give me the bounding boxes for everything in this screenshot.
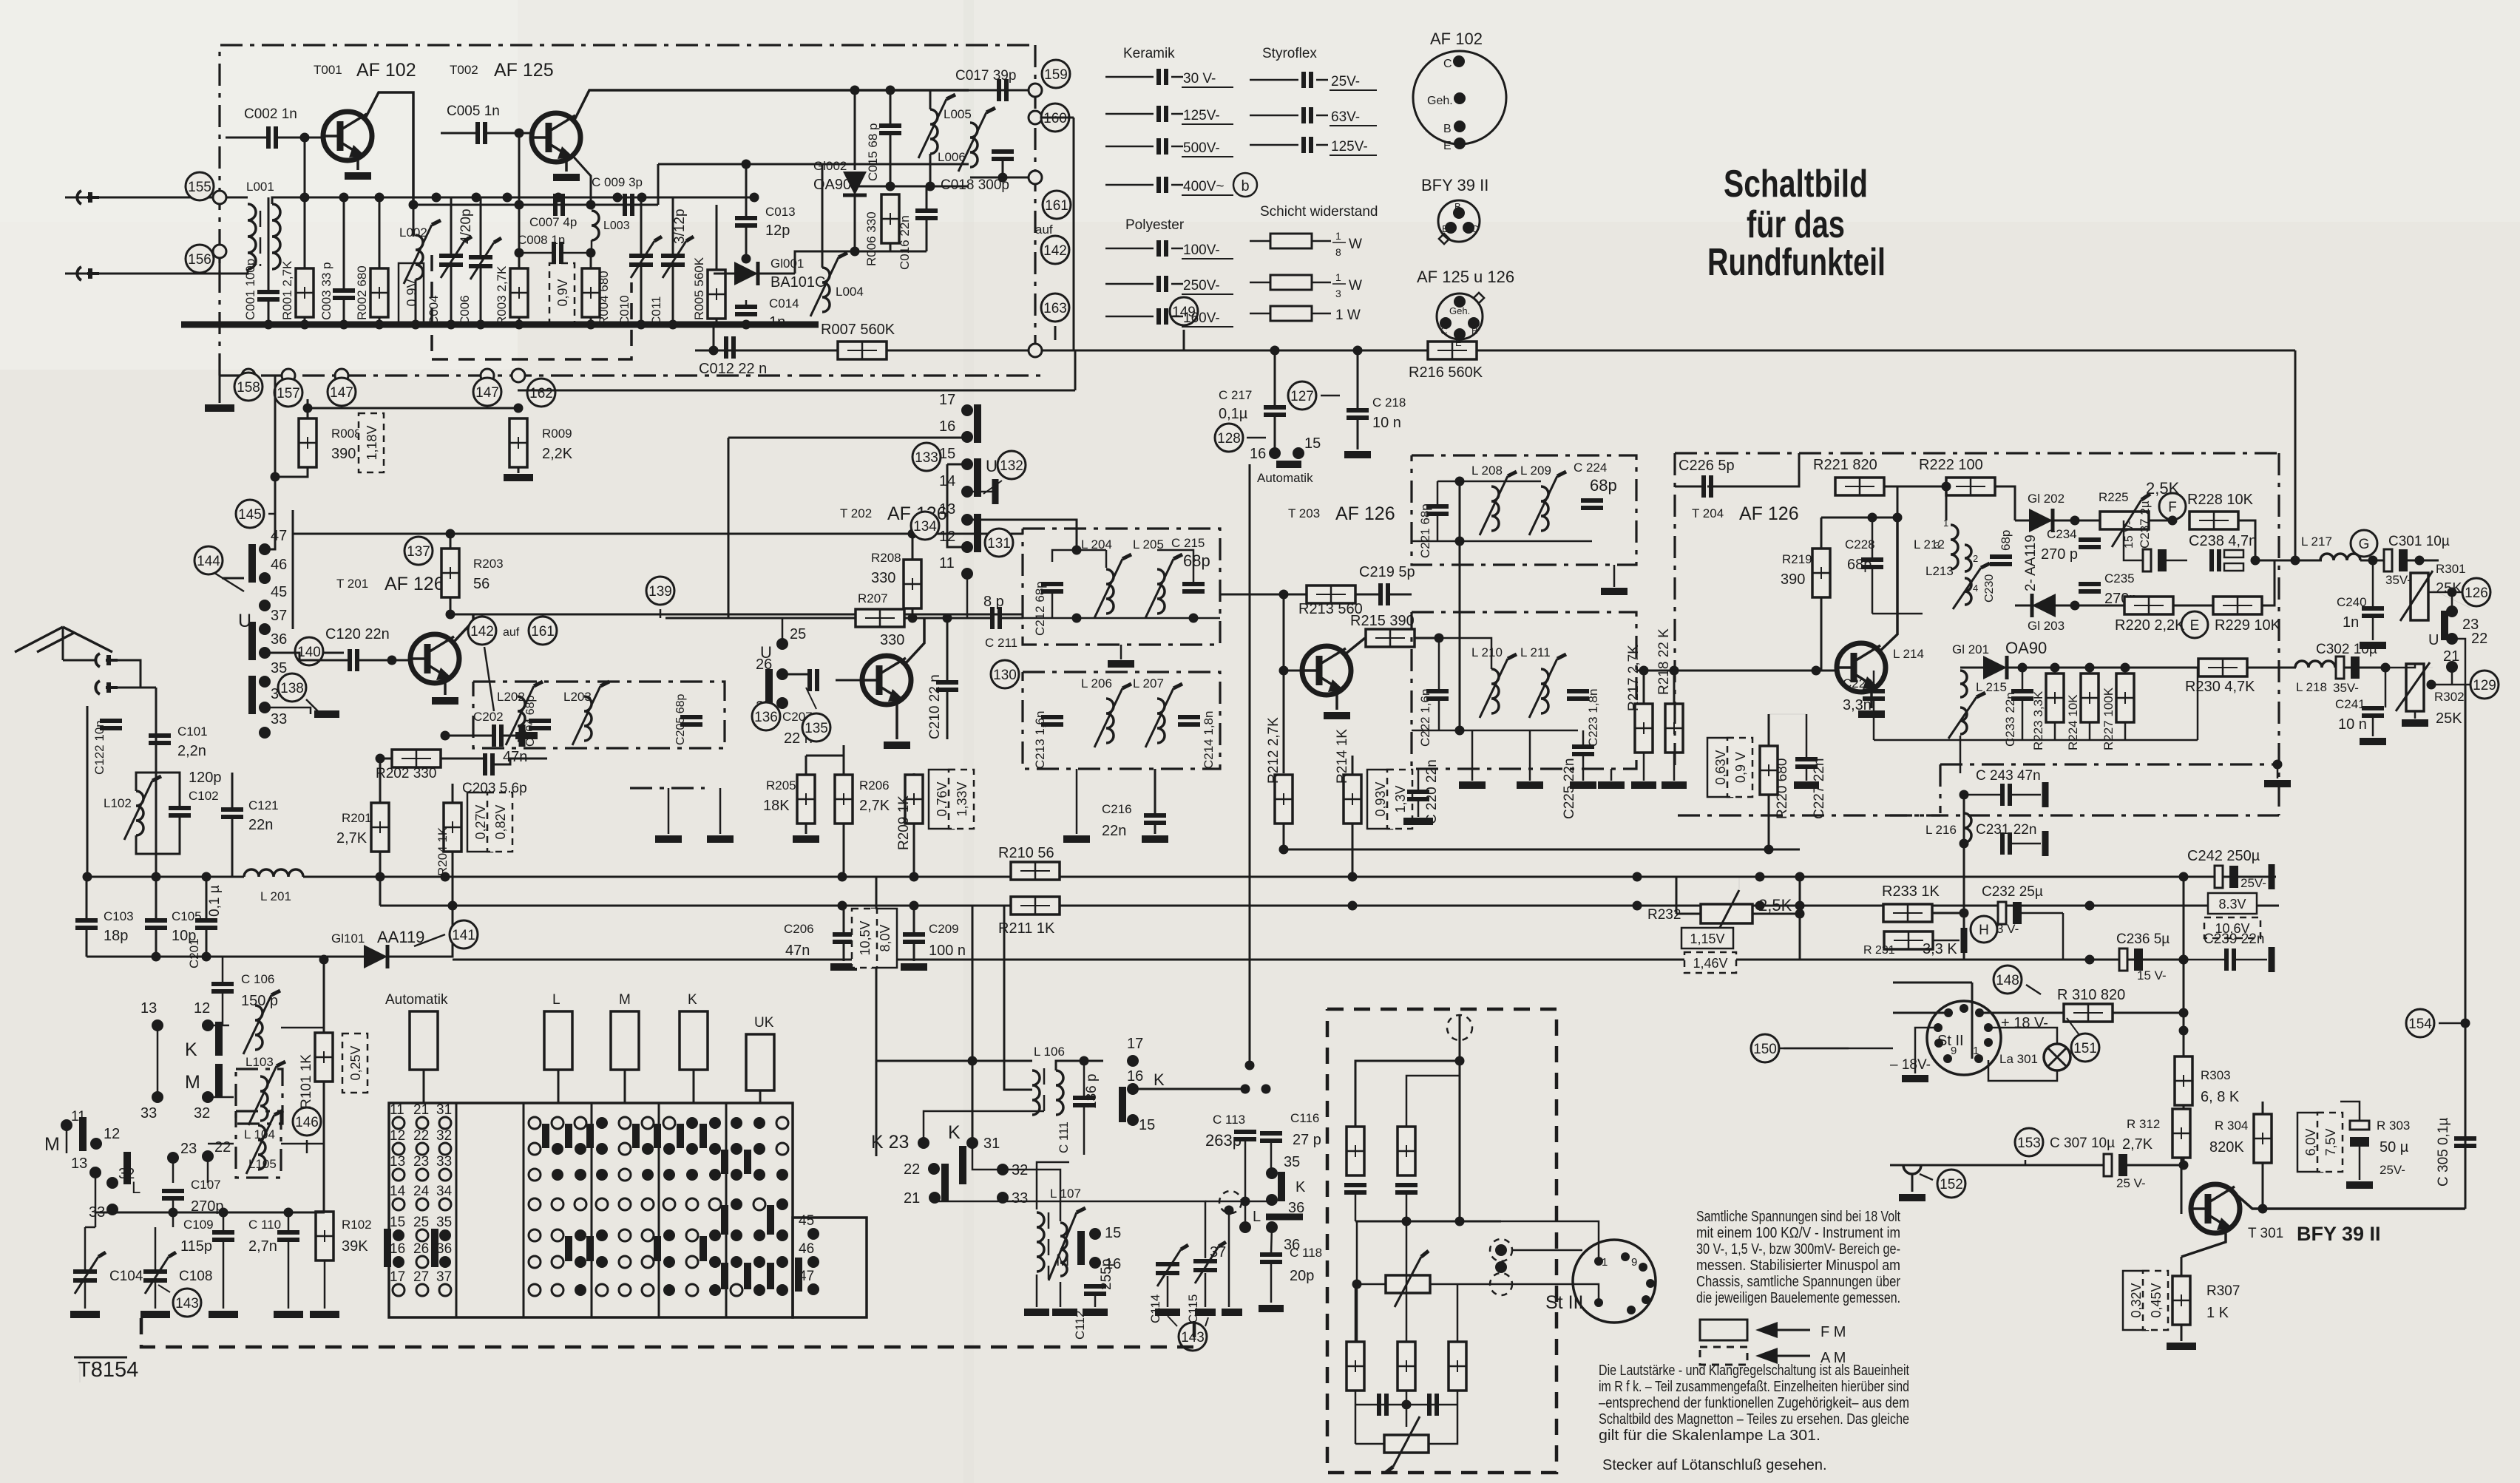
bus1186 junction 2953 [2179, 872, 2189, 882]
R001 bottom [304, 317, 306, 325]
FM tuner unit border right edge [1034, 45, 1036, 353]
svg-text:B: B [1454, 201, 1461, 212]
svg-text:129: 129 [2473, 678, 2496, 693]
R224 btm [2089, 722, 2091, 740]
K wires 21 [935, 1198, 995, 1201]
svg-text:U: U [2428, 632, 2439, 648]
node ref 162 [527, 379, 555, 407]
svg-text:0,63V: 0,63V [1713, 750, 1728, 784]
plug2 wire down [118, 687, 156, 689]
coil L103 [255, 1005, 262, 1050]
matrix contact 36 filled [439, 1256, 451, 1268]
svg-text:100 n: 100 n [929, 943, 966, 959]
pin11 drop [966, 574, 969, 618]
bus1186 junction 211 [152, 872, 161, 882]
matrix grid dot [709, 1229, 721, 1241]
capacitor C110 2,7n [277, 1232, 299, 1240]
svg-text:17: 17 [390, 1269, 405, 1285]
node ref 135 [802, 713, 830, 741]
ground C225 [1570, 781, 1596, 789]
svg-text:1: 1 [1943, 517, 1948, 529]
svg-text:R213 560: R213 560 [1298, 601, 1363, 617]
svg-text:C001 100p: C001 100p [243, 259, 257, 320]
FM tuner unit border (top box) [220, 45, 1035, 376]
stIII wires topb [1406, 1076, 1460, 1127]
legend keramik underline 198 [1182, 156, 1233, 157]
svg-text:L 207: L 207 [1133, 676, 1164, 690]
resistor R220 680 [1760, 746, 1778, 795]
wire L004 row [795, 251, 855, 274]
L104 wires [208, 1096, 234, 1099]
svg-text:C007 4p: C007 4p [529, 215, 577, 229]
stub verticals [668, 788, 670, 834]
R231 gnd bar [1961, 928, 1968, 953]
coil L107 secondary [1060, 1223, 1067, 1276]
resistor R307 1K [2172, 1276, 2190, 1325]
svg-text:820K: 820K [2209, 1139, 2244, 1155]
matrix contact 33 [439, 1169, 451, 1181]
wire vert 1974 [1459, 481, 1461, 730]
matrix contact 12 [393, 1143, 404, 1155]
voltage box 1.18V [359, 413, 384, 472]
matrix grid dot [731, 1169, 742, 1181]
junction 154 [2461, 1019, 2470, 1028]
contact 13a [152, 1019, 163, 1031]
voltage box 0.9V at R002 [399, 263, 424, 322]
svg-text:15: 15 [390, 1215, 405, 1230]
2179 stem [1610, 769, 1613, 781]
coil L004 variable [822, 268, 830, 312]
R233 vert [1963, 877, 1965, 960]
capacitor C018 300p [992, 152, 1014, 159]
resistor R228 10K [2189, 512, 2238, 529]
det bottom wire [2015, 605, 2075, 607]
svg-text:16: 16 [939, 418, 955, 435]
StIII pin [1621, 1252, 1630, 1261]
svg-text:Die Lautstärke - und Klangrege: Die Lautstärke - und Klangregelschaltung… [1599, 1362, 1909, 1379]
stIII resistor c [1347, 1342, 1364, 1391]
T201 emitter down [444, 679, 447, 695]
voltage box 0,93V [1367, 770, 1392, 829]
matrix grid circle [552, 1256, 563, 1268]
wire 36 to C120 [265, 652, 344, 654]
capacitor C223 1,8n [1567, 691, 1589, 699]
svg-text:C205 68p: C205 68p [674, 694, 687, 745]
boxD bottom [1438, 699, 1440, 730]
capacitor C113 263p [1234, 1132, 1256, 1139]
svg-text:63V-: 63V- [1331, 109, 1360, 125]
svg-text:Gl 201: Gl 201 [1952, 642, 1989, 656]
junction boxD btm [1455, 726, 1465, 736]
svg-text:0,27V: 0,27V [473, 804, 488, 839]
C108 top [155, 1227, 157, 1272]
transistor T001 AF 102 [323, 112, 372, 160]
svg-text:C005 1n: C005 1n [447, 103, 500, 119]
capacitor C114 trimmer [1156, 1245, 1188, 1286]
pin13 wire right [967, 520, 1077, 550]
junction R302 wiper [2427, 680, 2436, 690]
capacitor C239 22n [2226, 948, 2234, 971]
junction C012 left [709, 346, 719, 356]
C242 gnd bar [2269, 864, 2275, 889]
coil L210 [1491, 669, 1499, 713]
switch button UK [746, 1034, 774, 1090]
capacitor C303 50u elco [2350, 1121, 2369, 1147]
matrix grid circle [619, 1169, 631, 1181]
R212 btm [1283, 824, 1285, 849]
svg-text:37: 37 [436, 1269, 452, 1285]
line 372 to 47 [265, 510, 275, 549]
legend polyester underline 384 [1182, 293, 1233, 295]
thick ground bus FM box [181, 322, 819, 328]
legend keramik underline 154 [1182, 123, 1233, 125]
pin 15 automatik [1293, 447, 1304, 459]
ground C240 [2360, 642, 2386, 649]
junction L106 out [1080, 1056, 1089, 1066]
svg-text:L 201: L 201 [260, 889, 291, 903]
svg-text:12p: 12p [765, 223, 790, 239]
node 160 circle [1029, 111, 1042, 124]
ground row b [707, 835, 734, 843]
BFY39 pin B [1453, 207, 1465, 219]
switch button K [680, 1011, 708, 1070]
junction 2953 1298 [2179, 955, 2189, 965]
antenna left arm [15, 627, 63, 652]
voltage box 1,33V [949, 770, 974, 829]
node ref 156 [186, 245, 214, 273]
C003 bottom [343, 299, 345, 325]
transistor T002 AF 125 [532, 113, 580, 162]
matrix grid circle [663, 1117, 675, 1129]
wire vert 1736 [1283, 594, 1285, 773]
svg-text:AF 126: AF 126 [1739, 503, 1799, 524]
junction C243 [1960, 790, 1969, 800]
matrix grid dot [596, 1169, 608, 1181]
wire 1724 to C217 [1274, 370, 1276, 405]
ground T203 emitter [1324, 712, 1350, 719]
T204 base wire [1797, 670, 1837, 672]
R219 btm [1820, 597, 1823, 671]
svg-text:auf: auf [1035, 223, 1053, 237]
StIII pin [1639, 1263, 1647, 1272]
svg-text:1: 1 [1602, 1256, 1608, 1269]
T002 emitter stem [565, 158, 568, 172]
bar 22-21 [941, 1164, 949, 1202]
svg-text:C202: C202 [473, 710, 504, 724]
T201 collector up [453, 614, 473, 642]
vertical R003 [518, 257, 521, 268]
svg-text:–entsprechend der funktionel: –entsprechend der funktionellen Zugehöri… [1599, 1395, 1909, 1411]
legend keramik cap 154 [1159, 106, 1166, 122]
129 link [2452, 684, 2470, 686]
stub verticals2 [719, 788, 722, 834]
matrix contact 32 [439, 1143, 451, 1155]
node ref 161 [1043, 191, 1071, 219]
capacitor C108 variable [143, 1252, 176, 1294]
coil L217 [2320, 554, 2360, 560]
svg-text:2- AA119: 2- AA119 [2023, 535, 2039, 591]
C115 top [995, 1201, 1205, 1258]
svg-text:R 231: R 231 [1863, 944, 1895, 957]
boxC mid wire [1412, 540, 1592, 543]
legend keramik underline 104 [1182, 86, 1233, 88]
svg-text:C121: C121 [248, 798, 279, 812]
L105 out wire [281, 1143, 324, 1145]
contact22 wire [2452, 639, 2465, 685]
E wire [2173, 605, 2213, 607]
junction 1712 1473 [1261, 1085, 1271, 1094]
ground mic [1899, 1194, 1925, 1201]
C121 btm [231, 818, 234, 877]
svg-text:Geh.: Geh. [1449, 305, 1470, 316]
svg-text:22: 22 [904, 1161, 920, 1178]
junction R222 left [1942, 482, 1951, 492]
boxA inner wire [1105, 550, 1108, 568]
svg-text:R 310 820: R 310 820 [2057, 987, 2125, 1003]
C237 wires [2124, 520, 2143, 560]
stIII mid j [1352, 1280, 1362, 1289]
wire pins 1370 [1893, 1012, 1948, 1014]
matrix grid dot [731, 1198, 742, 1210]
FM detector box right edge [2277, 453, 2280, 815]
junction 1690 1441 [1245, 1061, 1255, 1070]
svg-text:Gl001: Gl001 [770, 257, 804, 271]
svg-text:151: 151 [2073, 1041, 2097, 1056]
svg-text:134: 134 [913, 519, 937, 535]
R227 btm [2124, 722, 2127, 740]
matrix grid dot [596, 1117, 608, 1129]
143b links [1168, 1316, 1177, 1326]
wire C218 drop [1357, 399, 1359, 410]
svg-text:36: 36 [271, 631, 287, 648]
R215 out [1415, 637, 1439, 639]
resistor R229 10K [2213, 597, 2262, 614]
svg-text:Chassis, samtliche Spannungen: Chassis, samtliche Spannungen über [1696, 1274, 1900, 1290]
capacitor C101 2,2n [149, 736, 171, 743]
resistor R206 2,7K [835, 775, 853, 824]
T204 collector [1880, 517, 1897, 651]
12a-13a wire [157, 1025, 159, 1097]
svg-text:T 201: T 201 [336, 577, 368, 591]
C012 link [713, 325, 715, 350]
bus1186 junction 118 [83, 872, 92, 882]
L005 btm [929, 154, 932, 186]
svg-text:2,2n: 2,2n [177, 743, 206, 759]
C302 out wire [2385, 668, 2387, 707]
FM detector box top edge [1675, 452, 2279, 454]
C201 btm [206, 929, 208, 957]
matrix grid circle [753, 1198, 765, 1210]
resistor R205 18K [797, 775, 815, 824]
plug AM antenna upper [95, 654, 118, 667]
capacitor C122 10n [100, 721, 122, 728]
voltage box 1,15V [1681, 928, 1733, 948]
wire C002 to T001 base [226, 137, 268, 139]
ground bl3 [209, 1311, 238, 1318]
junction boxC mid [1455, 537, 1465, 546]
resistor R230 4,7K [2198, 659, 2247, 676]
svg-text:F M: F M [1820, 1324, 1846, 1340]
stIII bus j2 [1455, 1217, 1465, 1226]
svg-text:OA90: OA90 [813, 177, 851, 193]
resistor R219 390 [1812, 549, 1830, 597]
StII pin [1934, 1023, 1942, 1032]
matrix contact 27 [416, 1284, 428, 1296]
legend styroflex lead 156 [1250, 115, 1298, 117]
coil L006 variable [970, 123, 978, 167]
coil L206 [1106, 699, 1114, 743]
svg-text:C204 68p: C204 68p [524, 696, 537, 747]
node ref 143b [1179, 1323, 1207, 1351]
svg-text:45: 45 [271, 584, 287, 600]
node ref 143a [173, 1289, 201, 1317]
contact K31 [966, 1137, 978, 1149]
svg-text:R229 10K: R229 10K [2215, 617, 2281, 634]
dash-dot stub C243 [1939, 764, 1941, 813]
C302 wire right [2385, 667, 2433, 668]
svg-text:0,76V: 0,76V [935, 781, 949, 816]
legend resistor lead2 326 [1312, 240, 1331, 242]
node ref 142 [1041, 236, 1069, 264]
ground R205 [793, 835, 819, 843]
svg-text:133: 133 [915, 450, 938, 466]
svg-text:K: K [948, 1122, 961, 1143]
matrixbox resistor a [1347, 1127, 1364, 1175]
bus1186 junction 2434 [1795, 872, 1805, 882]
C243 gnd bar [2042, 782, 2049, 807]
matrix grid circle [575, 1117, 586, 1129]
svg-text:150: 150 [1753, 1042, 1777, 1057]
wire 836 to C211 [904, 617, 992, 620]
bus1225 junction 612 [448, 901, 458, 911]
svg-text:R219: R219 [1782, 552, 1812, 566]
R310 left [1979, 1012, 2063, 1014]
svg-text:C: C [1443, 58, 1452, 70]
matrix grid dot [575, 1284, 586, 1296]
matrix sub dot 45 [807, 1228, 819, 1240]
143b links2 [1205, 1317, 1208, 1326]
contact 35b [1266, 1167, 1278, 1179]
C243 out [2011, 794, 2041, 796]
coil L218 [2295, 661, 2335, 668]
node ref 157 [274, 379, 302, 407]
svg-text:C 224: C 224 [1574, 461, 1607, 475]
dd ground stem [2277, 764, 2279, 778]
svg-text:C240: C240 [2337, 595, 2367, 609]
capacitor C236 5u [2119, 948, 2143, 971]
junction C120-T201 [387, 656, 397, 665]
svg-text:21: 21 [2443, 648, 2459, 665]
C109 btm [223, 1241, 225, 1309]
matrix grid dot [731, 1117, 742, 1129]
node ref 128 [1215, 424, 1243, 452]
junction 1836 474 [1353, 346, 1363, 356]
svg-text:L202: L202 [497, 690, 525, 704]
C121 top [231, 773, 234, 809]
svg-text:0,25V: 0,25V [348, 1045, 363, 1080]
node ref 159 [1042, 60, 1070, 88]
matrix bar [586, 1236, 594, 1261]
matrix grid dot [642, 1143, 654, 1155]
151 pointer [2067, 1018, 2079, 1035]
svg-text:L 215: L 215 [1976, 680, 2007, 694]
ground T001 emitter [345, 172, 371, 180]
svg-text:0,32V: 0,32V [2129, 1283, 2144, 1317]
switch pin 17 col T202 [961, 404, 973, 416]
matrix grid circle [731, 1284, 742, 1296]
coil L001 secondary [272, 204, 280, 269]
dash-dot stub C243 top [1940, 763, 2277, 765]
legend keramik lead 250 [1105, 184, 1154, 186]
legend styroflex underline 108 [1330, 89, 1377, 91]
coil L005 variable [930, 109, 938, 154]
legend keramik lead 198 [1105, 146, 1154, 148]
matrix grid circle [642, 1256, 654, 1268]
22a wire [207, 1156, 209, 1183]
C110 top [288, 1212, 290, 1232]
junction 1294 a [152, 952, 161, 962]
svg-text:22n: 22n [248, 817, 273, 833]
ground dd [2264, 780, 2291, 787]
junction boxA 1456 [1072, 614, 1082, 623]
junction C302 out [2381, 663, 2391, 673]
junction R220 btm [1764, 845, 1774, 855]
ground 138 [314, 710, 339, 718]
junction boxD in [1435, 634, 1444, 643]
svg-text:K: K [1295, 1179, 1306, 1195]
capacitor C212 68p [1041, 584, 1063, 591]
R230 right [2247, 667, 2296, 669]
svg-text:148: 148 [1996, 973, 2019, 988]
C219 right [1389, 594, 1412, 596]
switch pin 15 col T202 [961, 458, 973, 470]
junction R208 top [908, 529, 918, 539]
C233 wires [2022, 668, 2024, 690]
matrix contact 22 [416, 1143, 428, 1155]
R217 btm [1643, 753, 1645, 781]
matrix grid dot [709, 1284, 721, 1296]
matrix grid circle [642, 1284, 654, 1296]
svg-text:139: 139 [648, 584, 672, 600]
wire 37 stub [1244, 1201, 1247, 1221]
T204 emitter link [1769, 713, 1806, 715]
junction 1640 b [284, 1208, 294, 1218]
L215 bottom [1960, 736, 1962, 773]
bus 1149 segment [1284, 849, 1800, 851]
StII pin [1943, 1054, 1952, 1063]
svg-text:– 18V-: – 18V- [1890, 1057, 1931, 1073]
T001 collector wire [365, 92, 413, 200]
matrix divider 891 [658, 1103, 660, 1317]
switch button stem Automatik [423, 1070, 425, 1103]
capacitor C116 27p [1260, 1133, 1282, 1141]
svg-text:270 p: 270 p [2041, 546, 2078, 563]
bar pin 15-14 [974, 458, 981, 497]
L102 bottom [136, 816, 180, 854]
matrix contact 31 [439, 1117, 451, 1129]
R102 btm [324, 1260, 326, 1309]
pin14 ground bar [992, 479, 999, 504]
switch pin 11 col T202 [961, 568, 973, 580]
R206 top [843, 756, 845, 775]
T202 emitter down [895, 701, 898, 739]
svg-text:C219 5p: C219 5p [1359, 564, 1415, 580]
svg-text:T 202: T 202 [840, 506, 872, 520]
matrix contact 24 [416, 1198, 428, 1210]
legend resistor box 382 [1270, 275, 1312, 290]
matrix contact 15 filled [393, 1229, 404, 1241]
svg-text:L 217: L 217 [2301, 535, 2332, 549]
